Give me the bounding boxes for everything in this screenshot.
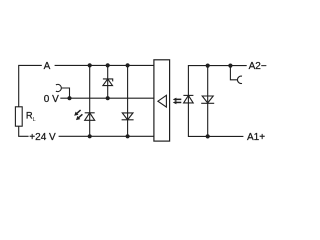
svg-text:0 V: 0 V	[44, 94, 59, 105]
svg-text:A2−: A2−	[249, 61, 267, 72]
svg-text:+24 V: +24 V	[29, 132, 56, 143]
svg-text:A1+: A1+	[247, 132, 265, 143]
svg-text:A: A	[44, 61, 51, 72]
svg-text:L: L	[33, 117, 36, 123]
